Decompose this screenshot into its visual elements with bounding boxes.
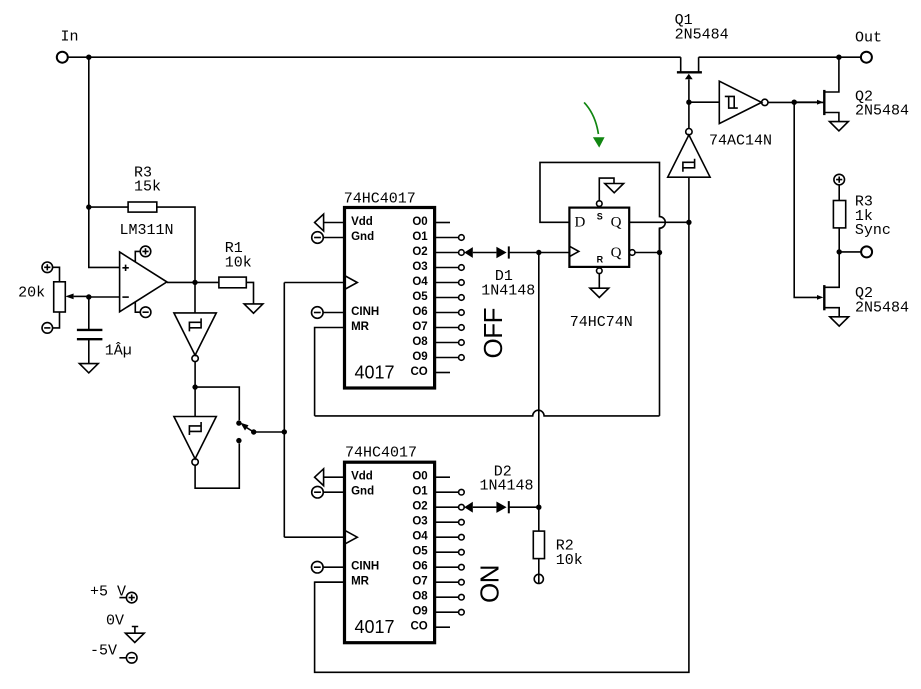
- wire U4 MR wire: [315, 581, 345, 583]
- svg-text:15k: 15k: [134, 179, 161, 196]
- FF clock triangle: [569, 246, 578, 256]
- transistor Q2 (upper) 2N5484: [823, 90, 825, 115]
- wire Q2b source: [824, 308, 839, 317]
- svg-text:-5V: -5V: [90, 642, 117, 659]
- node minus input node: [86, 294, 91, 299]
- flip-flop U5 74HC74N: [569, 208, 629, 267]
- node clock node: [282, 429, 287, 434]
- svg-text:74HC74N: 74HC74N: [570, 314, 633, 331]
- svg-text:Q: Q: [611, 215, 622, 231]
- wire S to gnd: [599, 178, 614, 201]
- svg-text:In: In: [61, 28, 79, 45]
- wire V- stub: [135, 302, 140, 312]
- supply bubble +5 for R3: [834, 174, 845, 185]
- wire U3 MR wire: [315, 328, 345, 416]
- IC U3 74HC4017 (upper): [312, 208, 465, 389]
- svg-text:0V: 0V: [106, 613, 124, 630]
- svg-text:2N5484: 2N5484: [855, 299, 909, 316]
- wire X2 out to switch bottom contact: [195, 443, 239, 488]
- wire top rail right: [699, 56, 861, 58]
- wire Q1 gate: [688, 79, 690, 102]
- wire X1 out to switch top contact: [195, 387, 239, 420]
- svg-text:OFF: OFF: [478, 308, 508, 359]
- svg-text:D: D: [575, 215, 586, 231]
- terminal R2 bottom: [534, 574, 543, 583]
- node Qbar node: [657, 250, 662, 255]
- node Q node: [686, 220, 691, 225]
- wire pot top lead: [53, 267, 60, 282]
- svg-text:R: R: [597, 255, 604, 265]
- schmitt inverter X1 (down): [174, 313, 216, 362]
- wire cap bottom lead: [88, 340, 90, 364]
- schmitt inverter X3 (up): [668, 129, 710, 178]
- wire clock to U4: [284, 536, 344, 538]
- node R3 tap on In line: [86, 204, 91, 209]
- wire clock vertical: [283, 283, 285, 538]
- node Q2 gate node: [792, 100, 797, 105]
- wire R3 left lead: [89, 206, 128, 208]
- wire line B down: [315, 222, 689, 672]
- svg-text:74AC14N: 74AC14N: [709, 132, 772, 149]
- ground under Q2 upper: [830, 122, 849, 131]
- wire into inverter X2: [194, 387, 196, 416]
- node switch pole: [251, 429, 256, 434]
- svg-text:Out: Out: [855, 29, 882, 46]
- ground under cap: [79, 364, 98, 373]
- wire D1 to FF clock: [539, 252, 570, 254]
- wire Q2a gate lead: [794, 101, 817, 103]
- wire 74AC14N out: [768, 101, 824, 103]
- wire R2 bottom lead: [538, 559, 540, 575]
- svg-text:2N5484: 2N5484: [855, 103, 909, 120]
- wire Qbar wire: [635, 252, 660, 254]
- wire Qbar down to MR return: [659, 253, 661, 416]
- svg-text:10k: 10k: [556, 552, 583, 569]
- pot wiper arrow: [65, 294, 73, 300]
- wire top rail left: [68, 56, 681, 58]
- node D1 junction: [536, 250, 541, 255]
- wire clk drop to D2 node: [538, 253, 540, 508]
- node switch contact a: [236, 420, 241, 425]
- svg-text:Q: Q: [611, 245, 622, 261]
- resistor R3 1k: [833, 201, 845, 228]
- svg-text:1N4148: 1N4148: [481, 282, 535, 299]
- wire R2 top lead: [538, 507, 540, 531]
- wire In vertical to comparator +: [89, 57, 120, 267]
- op-amp U2 LM311N: [120, 252, 167, 312]
- resistor R1 10k: [219, 277, 246, 288]
- wire Q2b drain from sync node: [824, 252, 839, 287]
- wire cap top lead: [88, 297, 90, 329]
- svg-text:20k: 20k: [18, 285, 45, 302]
- wire R3sync top lead: [838, 185, 840, 201]
- wire pot bottom lead: [53, 312, 60, 328]
- wire X3 input from Q node: [688, 177, 690, 222]
- wire wiper to - input: [74, 295, 89, 297]
- wire R1 right lead: [246, 282, 253, 304]
- wire Q1 source: [698, 57, 700, 71]
- wire R3sync bottom lead: [838, 228, 840, 252]
- node out tap: [836, 55, 841, 60]
- wire output wire: [167, 281, 219, 283]
- terminal Out: [861, 52, 872, 63]
- svg-text:S: S: [597, 212, 603, 222]
- svg-text:LM311N: LM311N: [120, 222, 174, 239]
- wire R3 right lead + down leg: [157, 207, 195, 282]
- wire Q2a source: [824, 113, 839, 122]
- node Q1 gate node: [686, 100, 691, 105]
- node sync node: [837, 249, 842, 254]
- node output node: [192, 280, 197, 285]
- svg-text:1Âµ: 1Âµ: [105, 342, 132, 360]
- terminal In: [57, 52, 68, 63]
- wire V+ stub: [135, 251, 140, 262]
- IC U4 74HC4017 (lower): [312, 462, 465, 643]
- wire clock to U3: [284, 282, 344, 284]
- wire X3 out up: [688, 102, 690, 128]
- FF R bubble + ground: [597, 268, 603, 274]
- svg-text:74HC4017: 74HC4017: [344, 190, 416, 207]
- wire D loop tail to Qbar: [659, 228, 661, 252]
- FF Qbar bubble: [629, 250, 635, 256]
- wire Q wire: [629, 221, 689, 223]
- svg-text:Sync: Sync: [855, 222, 891, 239]
- svg-text:1N4148: 1N4148: [480, 478, 534, 495]
- node X1 out node: [192, 384, 197, 389]
- wire sync stub: [839, 251, 861, 253]
- wire U3 MR return horizontal with hop: [315, 410, 660, 416]
- wire Q1 drain: [680, 57, 682, 71]
- svg-text:74HC4017: 74HC4017: [345, 445, 417, 462]
- wire to 74AC14N: [689, 101, 719, 103]
- wire pole to clock line: [254, 431, 285, 433]
- ground under R1: [244, 304, 263, 313]
- ground under Q2 lower: [830, 317, 849, 326]
- schmitt inverter X2 (down): [174, 417, 216, 466]
- svg-text:10k: 10k: [225, 255, 252, 272]
- diode D2 1N4148 with tap arrow: [464, 501, 539, 513]
- wire into inverter X1: [194, 282, 196, 313]
- wire D loop: [540, 162, 665, 252]
- FF S bubble + ground: [597, 201, 603, 207]
- node switch contact b: [236, 438, 241, 443]
- wire Q2b gate lead: [794, 102, 817, 297]
- svg-text:ON: ON: [475, 565, 505, 603]
- node in tap: [86, 55, 91, 60]
- wire X1 out: [194, 362, 196, 388]
- diode D1 1N4148 with tap arrow: [464, 246, 539, 258]
- node D2 junction: [536, 505, 541, 510]
- wire Q2a drain: [824, 57, 839, 92]
- wire R to gnd: [598, 274, 600, 289]
- annotation green arrow: [584, 102, 605, 147]
- svg-text:2N5484: 2N5484: [675, 27, 729, 44]
- wire - input wire: [89, 296, 120, 298]
